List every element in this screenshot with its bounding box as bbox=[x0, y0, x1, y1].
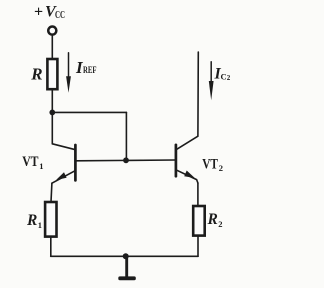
svg-text:2: 2 bbox=[219, 163, 223, 173]
wire R2 to ground rail bbox=[197, 236, 199, 257]
label R1 bbox=[26, 212, 42, 230]
ground symbol bbox=[118, 256, 136, 280]
transistor VT2 base bar bbox=[175, 145, 178, 177]
resistor R1 bbox=[45, 202, 56, 237]
wire R to node A bbox=[51, 89, 53, 112]
svg-text:2: 2 bbox=[227, 74, 231, 82]
VT2 collector lead bbox=[176, 136, 198, 150]
VT2 emitter lead with arrow bbox=[176, 170, 198, 183]
ground rail wire bbox=[51, 255, 198, 257]
wire VT2 emitter to R2 bbox=[197, 183, 199, 206]
svg-text:VT: VT bbox=[202, 156, 218, 172]
wire base branch drop bbox=[125, 112, 127, 160]
svg-text:2: 2 bbox=[218, 219, 222, 229]
label IREF bbox=[75, 58, 97, 77]
label R2 bbox=[207, 211, 223, 229]
wire node A down to VT1 collector bbox=[51, 112, 53, 143]
ground junction dot bbox=[123, 253, 129, 259]
svg-text:R: R bbox=[207, 211, 218, 228]
wire R1 to ground rail bbox=[50, 237, 52, 257]
resistor R2 bbox=[193, 206, 205, 236]
resistor R bbox=[47, 59, 57, 89]
transistor VT1 base bar bbox=[74, 145, 77, 180]
VT1 emitter lead with arrow bbox=[52, 171, 76, 184]
VT1 collector lead bbox=[52, 144, 75, 150]
label IC2 bbox=[214, 66, 231, 83]
label VT2 bbox=[202, 156, 223, 173]
current arrow IREF bbox=[66, 53, 71, 93]
terminal +Vcc bbox=[48, 27, 56, 35]
svg-text:REF: REF bbox=[83, 66, 97, 76]
node A junction dot bbox=[49, 110, 55, 116]
base rail wire VT1 to VT2 bbox=[76, 159, 174, 162]
svg-text:R: R bbox=[26, 212, 37, 229]
svg-text:1: 1 bbox=[39, 161, 43, 171]
wire Vcc terminal to R bbox=[51, 35, 53, 59]
svg-text:C: C bbox=[221, 72, 227, 82]
junction dot on base rail bbox=[123, 157, 129, 163]
svg-text:VT: VT bbox=[22, 154, 38, 170]
wire VT2 collector output bbox=[197, 52, 199, 136]
label VT1 bbox=[22, 154, 43, 171]
power label +Vcc bbox=[34, 4, 65, 22]
svg-text:R: R bbox=[30, 65, 42, 84]
wire node A to base branch (horizontal) bbox=[52, 111, 126, 113]
current arrow IC2 bbox=[209, 62, 214, 100]
svg-text:+: + bbox=[34, 4, 43, 21]
svg-text:1: 1 bbox=[38, 220, 42, 230]
svg-text:CC: CC bbox=[55, 10, 65, 21]
wire VT1 emitter to R1 bbox=[50, 183, 53, 202]
